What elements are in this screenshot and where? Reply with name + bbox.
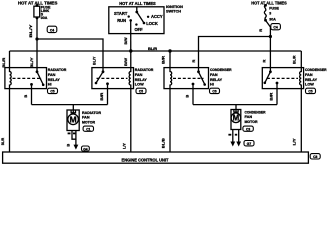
svg-text:RELAY: RELAY bbox=[305, 78, 317, 82]
svg-text:G7: G7 bbox=[247, 142, 252, 146]
svg-text:SWITCH: SWITCH bbox=[166, 9, 181, 13]
relay: CONDENSER FAN RELAY LOW bbox=[262, 68, 303, 89]
svg-text:START: START bbox=[114, 11, 128, 16]
svg-text:CONDENSER: CONDENSER bbox=[245, 110, 266, 114]
svg-text:FUSE: FUSE bbox=[269, 6, 279, 10]
svg-text:HOT AT ALL TIMES: HOT AT ALL TIMES bbox=[251, 1, 287, 6]
svg-text:B: B bbox=[23, 95, 28, 98]
radiator motor ground pins bbox=[72, 131, 76, 140]
svg-text:B/R: B/R bbox=[99, 92, 104, 100]
svg-text:RELAY: RELAY bbox=[210, 78, 222, 82]
wire: motor ground, label B bbox=[75, 139, 77, 145]
wire: bus left end down to relay1 coil, label BL/R bbox=[9, 51, 11, 68]
svg-text:C6: C6 bbox=[212, 90, 216, 94]
condenser motor ground wires, labels B bbox=[232, 130, 234, 143]
svg-text:LOW: LOW bbox=[135, 83, 144, 87]
svg-text:C8: C8 bbox=[313, 155, 317, 159]
svg-text:L/Y: L/Y bbox=[122, 143, 127, 149]
svg-text:FAN: FAN bbox=[210, 73, 218, 77]
wire: relay4 coil down to ECU, label L/Y bbox=[300, 89, 302, 152]
svg-text:CONDENSER: CONDENSER bbox=[210, 68, 232, 72]
ignition switch box bbox=[109, 7, 164, 34]
wire: relay3 output down, label B bbox=[192, 84, 194, 105]
connector C1 (radiator motor) bbox=[83, 126, 93, 131]
svg-text:C4: C4 bbox=[50, 28, 54, 32]
svg-text:OFF: OFF bbox=[135, 27, 144, 32]
wire: branch BL/Y to relay2 switch bbox=[37, 39, 103, 72]
svg-text:C5: C5 bbox=[139, 90, 143, 94]
svg-text:R: R bbox=[191, 60, 196, 63]
wire: relay1 coil down to ECU, label BL/R bbox=[9, 89, 11, 152]
ground arrow G4 bbox=[74, 145, 79, 150]
svg-text:RELAY: RELAY bbox=[48, 78, 60, 82]
connector C4 (right fuse) bbox=[271, 24, 281, 30]
svg-text:M: M bbox=[233, 114, 240, 123]
svg-text:B: B bbox=[65, 144, 70, 147]
wire: BL/R bus bbox=[10, 50, 302, 52]
fuse 3 30A (right) bbox=[264, 4, 267, 7]
svg-text:BL/Y: BL/Y bbox=[92, 56, 97, 65]
svg-text:R: R bbox=[258, 29, 263, 32]
svg-text:FAN: FAN bbox=[48, 73, 56, 77]
svg-text:RUN: RUN bbox=[117, 18, 126, 23]
wire: ignition RUN down to bus and relay2 coil, label B/W bbox=[130, 20, 132, 67]
svg-text:BL/R: BL/R bbox=[1, 57, 6, 67]
wire: bus right end down to relay4 coil, label BL/R bbox=[300, 51, 302, 68]
connector C3 (condenser motor) bbox=[243, 126, 253, 131]
svg-text:MOTOR: MOTOR bbox=[82, 120, 95, 124]
ignition switch internals bbox=[136, 7, 138, 12]
svg-text:HI: HI bbox=[210, 83, 214, 87]
wire: condenser motor feed bus bbox=[193, 104, 277, 106]
ground arrows G7 bbox=[230, 142, 235, 147]
svg-text:C3: C3 bbox=[246, 128, 250, 132]
svg-text:BL/Y: BL/Y bbox=[28, 24, 33, 37]
wire: relay2 coil down to ECU, label L/Y bbox=[130, 89, 132, 152]
relay: RADIATOR FAN RELAY LOW bbox=[92, 68, 134, 89]
svg-text:HI: HI bbox=[48, 83, 52, 87]
radiator fan motor M bbox=[67, 110, 79, 131]
junction dot relay2 coil bbox=[129, 49, 132, 52]
svg-text:C1: C1 bbox=[86, 128, 90, 132]
svg-text:BL/R: BL/R bbox=[148, 47, 158, 51]
svg-text:B/R: B/R bbox=[269, 92, 274, 100]
relay: CONDENSER FAN RELAY HI bbox=[164, 68, 209, 89]
svg-text:BL/R: BL/R bbox=[0, 138, 5, 146]
condenser fan motor M bbox=[231, 110, 241, 130]
svg-text:FAN: FAN bbox=[82, 116, 90, 120]
svg-text:LOCK: LOCK bbox=[146, 21, 158, 26]
svg-text:MOTOR: MOTOR bbox=[245, 120, 258, 124]
svg-text:BL/R: BL/R bbox=[292, 55, 297, 64]
ENGINE CONTROL UNIT bbox=[3, 152, 309, 163]
junction dot at branch bbox=[35, 37, 38, 40]
svg-text:FAN: FAN bbox=[135, 73, 143, 77]
svg-text:C5: C5 bbox=[308, 90, 312, 94]
svg-text:B/R: B/R bbox=[160, 56, 165, 64]
wire: relay2 output down, label B/R bbox=[107, 84, 109, 105]
relay: RADIATOR FAN RELAY HI bbox=[5, 68, 47, 89]
connector C5 (relay1) bbox=[48, 88, 58, 93]
connector C5 (relay4) bbox=[306, 88, 316, 93]
svg-text:B: B bbox=[185, 95, 190, 98]
svg-text:RADIATOR: RADIATOR bbox=[48, 68, 67, 72]
connector C5 (relay2) bbox=[136, 88, 146, 93]
connector C6 (relay3) bbox=[210, 88, 220, 93]
svg-text:LOW: LOW bbox=[305, 83, 314, 87]
svg-text:L/Y: L/Y bbox=[292, 138, 297, 145]
connector C8 (ECU) bbox=[310, 154, 320, 159]
svg-text:R: R bbox=[262, 60, 267, 63]
wire: fuse down to relay4 switch, label R bbox=[266, 20, 271, 72]
svg-text:M: M bbox=[70, 114, 77, 124]
svg-text:RADIATOR: RADIATOR bbox=[82, 111, 101, 115]
wire: relay1 output down, label B bbox=[31, 84, 33, 104]
svg-text:G4: G4 bbox=[83, 147, 88, 151]
svg-text:C4: C4 bbox=[273, 26, 277, 30]
svg-text:HOT AT ALL TIMES: HOT AT ALL TIMES bbox=[119, 1, 156, 6]
svg-text:FAN: FAN bbox=[245, 115, 253, 119]
svg-text:IGNITION: IGNITION bbox=[166, 5, 183, 9]
svg-text:FAN: FAN bbox=[305, 73, 313, 77]
wire: radiator motor feed bus bbox=[32, 104, 108, 106]
svg-text:BL/B: BL/B bbox=[160, 138, 165, 148]
svg-text:RELAY: RELAY bbox=[135, 78, 147, 82]
wire: bus T down to relay3 coil, label B/R bbox=[169, 51, 171, 68]
connector C4 (left fuse) bbox=[47, 26, 57, 32]
svg-text:ENGINE CONTROL UNIT: ENGINE CONTROL UNIT bbox=[122, 158, 169, 163]
svg-text:30A: 30A bbox=[269, 18, 276, 22]
svg-text:B/W: B/W bbox=[123, 58, 128, 66]
svg-text:3: 3 bbox=[269, 12, 271, 16]
junction dot relay3 coil bbox=[168, 49, 171, 52]
fuse link S 30A (left) bbox=[36, 4, 39, 7]
svg-text:30A: 30A bbox=[41, 16, 48, 20]
svg-text:ACCY: ACCY bbox=[151, 14, 163, 19]
wire: fuse down to relay1 switch, label BL/Y bbox=[36, 18, 38, 72]
wire: relay4 output down, label B/R bbox=[276, 83, 278, 105]
junction dot right branch bbox=[269, 35, 272, 38]
wire: branch to relay3 switch, label R bbox=[199, 37, 271, 72]
svg-text:RADIATOR: RADIATOR bbox=[135, 68, 154, 72]
svg-text:CONDENSER: CONDENSER bbox=[305, 68, 327, 72]
wire: relay3 coil down to ECU, label BL/B bbox=[169, 89, 171, 152]
svg-text:C5: C5 bbox=[50, 90, 54, 94]
svg-text:B/W: B/W bbox=[123, 37, 128, 44]
svg-text:BL/Y: BL/Y bbox=[29, 57, 34, 68]
